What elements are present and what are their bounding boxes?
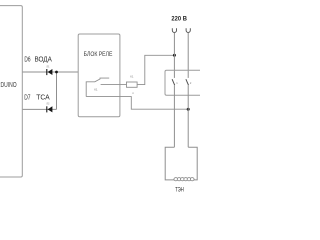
svg-text:ТСА: ТСА xyxy=(36,95,50,102)
svg-text:VD1: VD1 xyxy=(46,65,49,68)
svg-text:БЛОК РЕЛЕ: БЛОК РЕЛЕ xyxy=(84,51,113,58)
svg-text:ARDUINO: ARDUINO xyxy=(0,82,17,89)
svg-text:К1: К1 xyxy=(94,87,98,91)
svg-text:VD2: VD2 xyxy=(46,103,49,106)
svg-text:ТЭН: ТЭН xyxy=(175,187,184,194)
svg-text:D7: D7 xyxy=(24,95,30,102)
svg-text:ВОДА: ВОДА xyxy=(35,57,53,64)
svg-text:К1: К1 xyxy=(130,75,134,79)
svg-text:220 В: 220 В xyxy=(171,16,187,23)
svg-text:D6: D6 xyxy=(24,57,30,64)
